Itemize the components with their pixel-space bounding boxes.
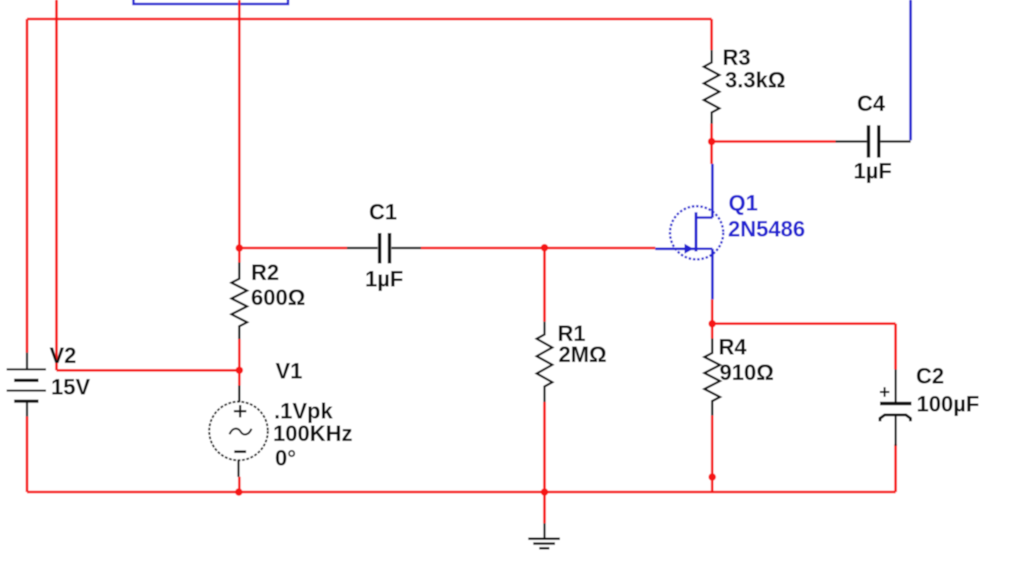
capacitor C4	[836, 125, 911, 157]
wire left inner horizontal	[57, 369, 240, 372]
ground	[528, 523, 560, 548]
capacitor C1	[347, 233, 421, 263]
wire R3 node to Q1 drain	[710, 142, 713, 164]
oscilloscope box (top, partially visible)	[134, 0, 289, 4]
wire R1 top	[543, 248, 546, 322]
wire node to C1 left	[239, 247, 347, 250]
wire R3 bottom	[710, 124, 713, 142]
svg-text:15V: 15V	[51, 375, 90, 400]
junction node R4 bottom	[709, 473, 716, 480]
junction node C1/R2	[236, 244, 243, 251]
resistor R4	[704, 339, 720, 416]
junction node R2/V1/V2	[236, 367, 243, 374]
wire R3 node to C4 left	[712, 140, 836, 143]
wire left inner vertical	[55, 0, 58, 370]
wire R1 node to Q1 gate	[545, 247, 656, 250]
wire Q1 gate stub (blue)	[655, 248, 696, 251]
svg-text:1µF: 1µF	[854, 159, 892, 184]
wire ground stub	[543, 492, 546, 523]
svg-text:C4: C4	[857, 91, 886, 116]
wire C2 top vertical	[894, 324, 897, 370]
svg-text:2MΩ: 2MΩ	[559, 342, 607, 367]
svg-text:V2: V2	[50, 343, 77, 368]
svg-text:V1: V1	[276, 359, 303, 384]
wire R2 top vertical to scope	[238, 0, 241, 263]
wire C2 bottom vertical	[894, 444, 897, 492]
wire R3 top	[710, 19, 713, 50]
wire R4 bottom	[711, 415, 714, 492]
svg-text:910Ω: 910Ω	[720, 360, 774, 385]
resistor R1	[537, 322, 553, 402]
svg-text:R2: R2	[251, 260, 279, 285]
battery V2	[7, 353, 46, 417]
svg-text:R4: R4	[719, 335, 748, 360]
junction node V1 ground	[235, 488, 242, 495]
svg-text:C2: C2	[916, 364, 944, 389]
wire C4 right vertical (blue net)	[909, 0, 912, 140]
svg-text:.1Vpk: .1Vpk	[274, 399, 333, 424]
svg-text:100µF: 100µF	[917, 392, 980, 417]
junction node source/R4/C2	[709, 320, 716, 327]
junction node R1 ground	[541, 488, 548, 495]
wire bottom horizontal ground rail	[27, 491, 896, 494]
wire left outer vertical top	[26, 19, 29, 353]
junction node R3/C4/drain	[708, 138, 715, 145]
wire R2 bottom to V1 top	[238, 339, 241, 386]
wire Q1 source to R4 node	[711, 299, 714, 338]
svg-text:600Ω: 600Ω	[251, 285, 305, 310]
wire V1 bottom	[238, 477, 241, 492]
ac source V1	[209, 386, 268, 477]
wire R4 node to C2 top	[712, 322, 895, 325]
resistor R2	[232, 263, 248, 340]
svg-text:C1: C1	[369, 200, 397, 225]
wire top horizontal V2+ to R3	[27, 18, 712, 21]
transistor Q1 (2N5486 JFET)	[670, 206, 723, 259]
resistor R3	[704, 50, 720, 124]
wire C1 right to R1 node	[421, 247, 545, 250]
capacitor C2 (electrolytic)	[880, 370, 912, 446]
svg-text:1µF: 1µF	[365, 267, 403, 292]
svg-text:R3: R3	[723, 45, 751, 70]
wire Q1 source stub (blue)	[711, 249, 714, 299]
wire left outer vertical bottom	[26, 416, 29, 492]
wire R1 bottom	[543, 402, 546, 492]
junction node R1 gate	[541, 244, 548, 251]
svg-text:100KHz: 100KHz	[273, 421, 352, 446]
svg-text:0°: 0°	[275, 446, 296, 471]
svg-text:2N5486: 2N5486	[728, 217, 805, 242]
svg-text:3.3kΩ: 3.3kΩ	[725, 68, 785, 93]
svg-text:Q1: Q1	[729, 190, 758, 215]
wire Q1 drain stub (blue)	[711, 164, 714, 218]
